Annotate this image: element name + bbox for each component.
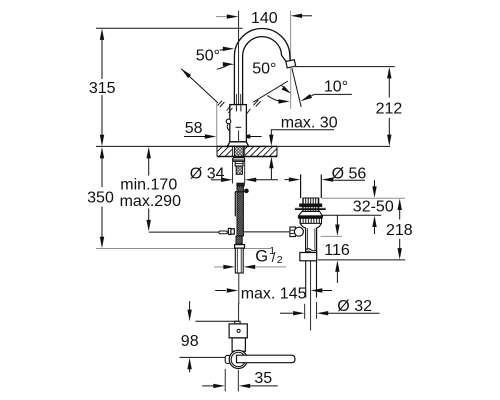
drain waste tube O56 walls: [300, 175, 302, 199]
water stream line at 10 deg: [292, 68, 301, 107]
dim 218 vertical line with arrows (x=399.7): [398, 199, 402, 211]
drain ball rod nut: [290, 227, 296, 237]
dim 98 bottom arrow: [187, 358, 191, 370]
svg-text:10°: 10°: [324, 79, 348, 96]
reference line: top of spout (y=28.2) for 315 dim: [96, 27, 243, 29]
escutcheon base trapezoid: [227, 142, 248, 146]
deck bottom edge: [217, 156, 277, 158]
bottom view: lever handle pill: [237, 355, 296, 363]
dim O32 line, arrows, extension lines (y=313.2): [280, 312, 293, 314]
svg-text:116: 116: [324, 242, 350, 259]
dim 58 line and arrows (y=136.5): [184, 136, 205, 138]
reference line D: tailpipe shoulder (y=259.9): [318, 259, 405, 261]
bottom view: cap pin bump: [235, 321, 240, 324]
faucet body rectangle: [230, 105, 247, 142]
svg-text:350: 350: [87, 190, 114, 207]
drain flange ring (dark): [300, 204, 322, 206]
svg-text:max. 30: max. 30: [281, 114, 338, 131]
bottom view: body rectangle: [232, 338, 245, 351]
svg-text:max. 145: max. 145: [241, 286, 307, 303]
drain ball joint: [294, 227, 303, 236]
reference line: lowest point (y=248.5) for 350 dim (gray): [96, 248, 270, 250]
body detail dash: [236, 126, 242, 128]
side lever hook arc: [227, 124, 229, 131]
riser inner wall stubs: [236, 94, 238, 105]
G1/2 nut: [235, 245, 245, 249]
svg-text:98: 98: [181, 333, 199, 350]
dim max.145 line and arrows (y=290.5): [215, 290, 226, 292]
side lever knob circle: [226, 119, 231, 124]
dim 315 vertical line with arrows (x=102): [101, 34, 103, 80]
dim 212 vertical line with arrows (x=389.3): [388, 72, 390, 98]
svg-text:max.290: max.290: [120, 193, 181, 210]
svg-text:50°: 50°: [252, 61, 276, 78]
reference line A: basin level at drain (y=198.2, gray): [322, 197, 406, 199]
reference line B: flange underside (y=215.2): [322, 214, 381, 216]
deck hole edges: [232, 146, 234, 156]
dim 35 line and arrows (y=385.9): [202, 385, 213, 387]
rod clamp blocks at hose: [228, 228, 231, 234]
aerator outlet box (tilted): [286, 60, 296, 68]
pop-up rod top bar: [235, 191, 244, 193]
pop-up vertical rod: [234, 192, 236, 217]
tube break wave: [306, 249, 317, 251]
diagonal axis line D2 with break ticks: [253, 81, 288, 102]
drain tailpipe O32: [305, 261, 307, 298]
body corner tick rays right: [247, 109, 251, 114]
G1/2 connection tube with inner walls: [235, 248, 243, 273]
svg-text:35: 35: [254, 370, 272, 387]
drain body taper: [300, 223, 305, 227]
rod end connector capsule: [219, 231, 227, 234]
10deg leader: horizontal + slant with arrowhead to stream line: [314, 93, 352, 95]
threaded shank through deck (crosshatch): [234, 146, 243, 156]
washer lines: [295, 207, 326, 209]
dim 140 right arrow and tail: [291, 14, 303, 18]
hose top fitting: [237, 183, 244, 186]
reference line: spout outlet level (y=66.6) for 212 dim: [296, 66, 395, 68]
bottom view: joint outer circle: [229, 350, 247, 368]
braided flexible hose: [237, 186, 243, 236]
tube centerline extension: [238, 273, 240, 304]
reference line C: rod level (y=236.4, gray): [321, 235, 342, 237]
bottom view: C-collar at joint: [225, 355, 230, 363]
svg-text:32-50: 32-50: [353, 199, 394, 216]
drain ribbed nut: [300, 218, 322, 223]
dim 350 vertical line with arrows (x=102): [101, 152, 103, 187]
drain flare trapezoid: [299, 211, 323, 216]
svg-text:min.170: min.170: [120, 176, 177, 193]
svg-text:2: 2: [277, 254, 283, 266]
bottom view: cap screw circle: [237, 329, 240, 332]
cartridge marks inside body: [235, 105, 237, 111]
deck top edge: [217, 145, 277, 147]
bottom view: cap rectangle: [229, 324, 247, 338]
bottom view: centerline above cap: [238, 303, 240, 321]
dim G1/2 line and arrows (y=266.9): [214, 266, 224, 268]
dim max.30 upper arrow pointing down to deck top: [270, 130, 272, 136]
svg-text:50°: 50°: [196, 48, 220, 65]
bottom view: reference line top (y=321.3): [195, 320, 238, 322]
extension line wall edge x=216.7 (gray): [216, 103, 218, 146]
pop-up rod knob ball: [244, 189, 249, 194]
dim min.170/max.290 vertical line with arrows (x=148.7): [148, 152, 150, 176]
threaded rod below nut (crosshatch): [236, 166, 242, 174]
dim 116 arrows (x=337.4): [336, 215, 338, 225]
drain body tube walls: [305, 228, 307, 253]
reference line: countertop level extended (y=146.4): [96, 145, 390, 147]
right 50deg arc with arrow to vertical axis: [267, 96, 279, 101]
drain centerline below: [310, 261, 312, 331]
drain ribbed band: [303, 206, 319, 211]
drain compression nut: [300, 253, 317, 261]
spout curve outer arc: [234, 29, 290, 105]
drain knurled collar: [303, 198, 319, 204]
deck left edge: [216, 146, 218, 156]
mounting nut below deck: [234, 157, 245, 161]
svg-text:212: 212: [376, 101, 403, 118]
spout curve inner arc: [243, 37, 286, 105]
deck right edge: [276, 146, 278, 156]
svg-text:/: /: [272, 250, 276, 265]
svg-text:G: G: [255, 248, 268, 266]
extension line spout outlet axis (x=290.6), gray: [290, 11, 292, 60]
svg-text:140: 140: [251, 10, 278, 27]
left 50deg arc arrow 2 to riser: [217, 65, 229, 70]
bottom view: lever axis extension line (y=357.4): [180, 356, 226, 358]
left 50deg leader arrow 1 to riser: [220, 49, 227, 50]
dim O34 line, arrows, extension ticks (y=179.8): [211, 179, 222, 181]
svg-text:Ø 32: Ø 32: [337, 298, 372, 315]
bottom view: joint inner circle: [231, 352, 245, 366]
axis line inside body lower part: [238, 131, 240, 147]
svg-text:58: 58: [185, 120, 203, 137]
dim 35 extension lines: [224, 369, 226, 392]
dim 32-50 arrows (x=374.5): [374, 180, 376, 187]
dim 98 top arrow: [189, 301, 191, 310]
body corner tick rays left: [228, 108, 232, 113]
extension line faucet axis (x=238.6) from dim down to body: [238, 11, 240, 105]
dim max.30 lower arrow pointing up to deck bottom: [269, 157, 273, 169]
dim 140 line, left arrow and tail: [216, 16, 228, 18]
drain black band: [299, 216, 323, 218]
horizontal pop-up linkage rod to drain: [149, 231, 219, 233]
svg-text:218: 218: [386, 222, 413, 239]
D2 end arrowhead toward outlet axis: [282, 86, 286, 89]
diagonal leader line D1 with end arrowhead and break ticks: [181, 69, 218, 103]
svg-text:315: 315: [89, 80, 116, 97]
